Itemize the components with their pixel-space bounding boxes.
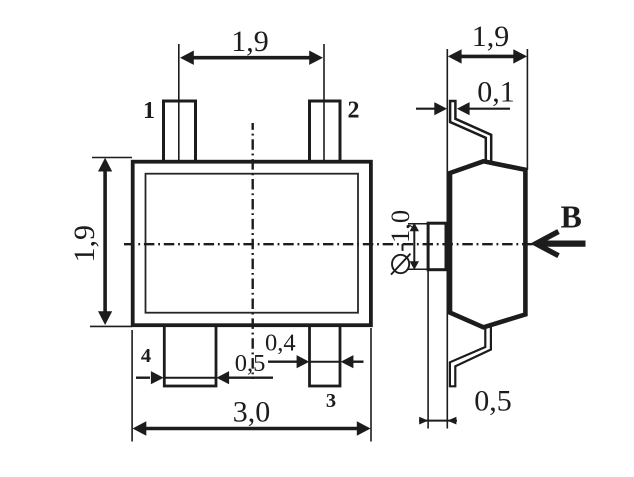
svg-text:0,1: 0,1 [477,75,515,108]
bottom gull-wing lead [450,326,491,386]
view arrow B: head [536,232,559,256]
dim 0,5 (pin 4): right arrow [216,371,229,384]
dim 1,9 side: dimension line [454,55,521,59]
svg-text:-1,0: -1,0 [385,210,415,252]
dim 0,4 (pin 3): right arrow [341,355,354,368]
svg-text:1: 1 [143,98,155,124]
svg-text:0,5: 0,5 [474,385,512,418]
label dia symbol [392,255,409,273]
svg-text:B: B [561,198,582,234]
svg-text:2: 2 [348,97,360,123]
dim 1,9 left: extension line top [92,157,132,159]
view arrow B: shaft [537,240,586,246]
dim 1,0: leader bottom [408,268,427,270]
dim 0,1: right arrow [457,102,470,115]
dim 1,9 top: dimension line [186,56,317,60]
dim 0,5 side bottom: dimension line [419,420,457,422]
svg-text:3: 3 [326,390,336,412]
dim 0,5 (pin 4): left arrow [136,377,150,379]
dim 0,4 (pin 3): left arrow [268,361,298,363]
pin 4 [164,324,216,386]
pin 1 [164,101,196,163]
dim 1,9 top: extension line right [323,44,325,161]
pin 3 [310,324,341,386]
svg-text:3,0: 3,0 [233,396,271,429]
svg-text:1,9: 1,9 [68,225,101,262]
dim 3,0 bottom: extension line left [131,330,133,442]
dim 1,0: leader top [408,223,427,225]
dim 3,0 bottom: extension line right [370,328,372,442]
svg-text:4: 4 [141,345,151,367]
svg-text:1,9: 1,9 [472,20,510,53]
inner rect [146,174,359,313]
svg-text:0,5: 0,5 [235,350,266,377]
centerline horizontal [124,243,534,245]
centerline vertical [251,123,253,379]
dim 0,1: left arrow [416,108,435,110]
dim 1,9 left: extension line bottom [90,325,132,327]
dim 0,5 (pin 4): line through pin [164,377,217,379]
dim 1,9 top: extension line left [178,44,180,161]
side view: extension line right (x=527) [526,49,528,170]
top gull-wing lead [450,101,491,162]
dim 0,4 (pin 3): line through pin [310,361,341,363]
side view: extension line left (x=447) [446,49,448,429]
dim 1,9 left: dimension line [103,165,107,318]
svg-text:0,4: 0,4 [265,330,296,357]
side view body [450,161,525,327]
svg-text:1,9: 1,9 [231,25,269,58]
dim 1,0: vertical double arrow [413,228,415,265]
dim 3,0 bottom: dimension line [140,427,363,431]
package body outline [133,162,371,326]
middle pin end (small rect) [428,223,446,270]
side view: extension line (x=428) [427,270,429,429]
pin 2 [310,101,341,163]
